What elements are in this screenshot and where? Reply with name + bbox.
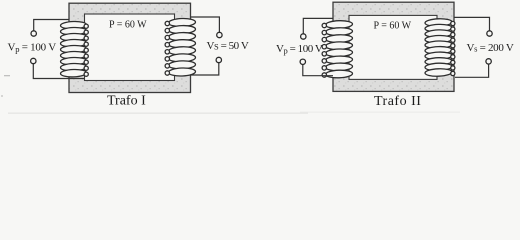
wire T2 secondary top lead bbox=[454, 17, 490, 30]
wire T1 secondary top lead bbox=[191, 17, 220, 32]
transformer T2 core (laminated frame) bbox=[333, 2, 454, 91]
wire T1 secondary bottom lead bbox=[190, 63, 219, 75]
secondary winding T1 (Vs side, 8 turns) bbox=[165, 18, 196, 76]
terminal T1 primary top bbox=[31, 31, 36, 36]
terminal T1 primary bottom bbox=[31, 58, 36, 63]
svg-text:Vs = 200 V: Vs = 200 V bbox=[467, 42, 514, 54]
wire T2 secondary bottom lead bbox=[455, 64, 489, 77]
svg-text:P = 60 W: P = 60 W bbox=[374, 21, 412, 32]
terminal T2 secondary top bbox=[487, 31, 492, 36]
svg-text:Vp = 100 V: Vp = 100 V bbox=[8, 42, 57, 55]
wire T1 primary bottom lead bbox=[33, 64, 84, 79]
scan artifact: faint smudge line near bottom bbox=[8, 113, 308, 114]
terminal T2 primary bottom bbox=[300, 59, 305, 64]
scan artifact: specks at left margin bbox=[4, 75, 10, 76]
terminal T2 secondary bottom bbox=[486, 59, 491, 64]
svg-text:Trafo I: Trafo I bbox=[107, 94, 146, 109]
terminal T1 secondary top bbox=[217, 32, 222, 37]
svg-text:Vp = 100 V: Vp = 100 V bbox=[276, 43, 323, 56]
transformer T1 core (laminated frame) bbox=[69, 3, 191, 92]
svg-text:P = 60 W: P = 60 W bbox=[109, 20, 147, 31]
terminal T1 secondary bottom bbox=[216, 57, 221, 62]
wire T1 primary top lead bbox=[34, 20, 69, 31]
primary winding T1 (Vp side, 9 turns) bbox=[60, 21, 88, 77]
background paper bbox=[0, 0, 520, 118]
terminal T2 primary top bbox=[301, 34, 306, 39]
primary winding T2 (Vp side, 8 turns) bbox=[322, 20, 353, 78]
wire T2 primary top lead bbox=[303, 18, 333, 33]
secondary winding T2 (Vs side, 10 turns) bbox=[425, 18, 455, 76]
svg-text:VS = 50 V: VS = 50 V bbox=[207, 40, 249, 52]
wire T2 primary bottom lead bbox=[303, 65, 333, 76]
svg-text:Trafo II: Trafo II bbox=[374, 94, 421, 109]
